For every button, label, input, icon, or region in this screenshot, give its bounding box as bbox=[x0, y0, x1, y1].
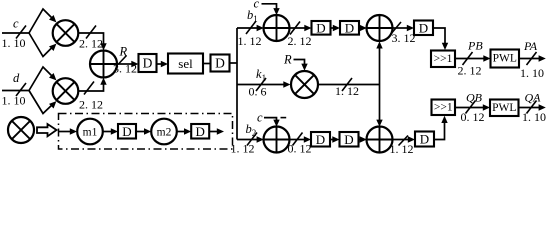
svg-text:d: d bbox=[13, 71, 20, 85]
legend multiplier stage m1 bbox=[77, 119, 103, 145]
register D3 bbox=[312, 20, 331, 35]
svg-text:1. 12: 1. 12 bbox=[335, 84, 359, 98]
adder B2 (sum + k1*R) bbox=[367, 127, 393, 153]
output node PA (format 1.10) bbox=[519, 39, 546, 80]
svg-text:D: D bbox=[345, 20, 354, 35]
svg-text:0. 12: 0. 12 bbox=[461, 110, 485, 124]
node b1: wire bus to adder A1 (format 1.12) bbox=[237, 8, 264, 48]
svg-text:D: D bbox=[316, 20, 325, 35]
wire D8 to shifter bbox=[434, 116, 448, 140]
svg-text:0. 12: 0. 12 bbox=[288, 142, 312, 156]
vertical distribution bus bbox=[236, 28, 238, 140]
wire M1 to adder A0 (format 2.12) bbox=[78, 26, 106, 51]
svg-text:2. 12: 2. 12 bbox=[458, 64, 482, 78]
svg-text:c: c bbox=[257, 111, 263, 125]
shifter >>1 (Q path) bbox=[432, 100, 456, 116]
wire D2 to distribution bus bbox=[230, 62, 238, 64]
register D7 bbox=[340, 132, 359, 147]
svg-text:1. 12: 1. 12 bbox=[390, 142, 414, 156]
svg-text:R: R bbox=[283, 53, 292, 67]
svg-text:m2: m2 bbox=[157, 127, 172, 139]
svg-text:D: D bbox=[420, 132, 429, 147]
legend register D (after m2) bbox=[191, 124, 209, 139]
svg-text:c: c bbox=[13, 17, 19, 31]
node c (negated) into adder B1 bbox=[257, 111, 286, 127]
svg-text:D: D bbox=[316, 132, 325, 147]
svg-text:D: D bbox=[122, 124, 131, 139]
svg-text:m1: m1 bbox=[83, 127, 98, 139]
wire M3 to feedback bus (format 1.12) bbox=[318, 78, 380, 98]
wire sel to D2 bbox=[203, 63, 211, 65]
legend wire D to m2 bbox=[136, 128, 151, 134]
svg-text:1. 12: 1. 12 bbox=[231, 142, 255, 156]
register D2 bbox=[211, 55, 230, 72]
svg-text:1. 10: 1. 10 bbox=[2, 36, 26, 50]
block PWL (Q path) bbox=[490, 100, 519, 117]
legend hollow arrow (implemented-as) bbox=[37, 124, 57, 136]
svg-text:2. 12: 2. 12 bbox=[79, 98, 103, 112]
wire B1 to register (format 0.12) bbox=[288, 133, 312, 156]
svg-text:D: D bbox=[344, 132, 353, 147]
wire D3 to D4 bbox=[331, 25, 341, 31]
svg-text:D: D bbox=[143, 56, 153, 71]
wire A2 to register (format 3.12) bbox=[390, 22, 416, 45]
svg-text:PWL: PWL bbox=[492, 102, 516, 114]
legend wire into m1 bbox=[59, 128, 78, 134]
svg-text:R: R bbox=[119, 45, 128, 59]
wire D1 to sel bbox=[157, 61, 169, 67]
register D4 bbox=[340, 20, 359, 35]
svg-text:3. 12: 3. 12 bbox=[113, 62, 137, 76]
multiplier M1 (c squared) bbox=[53, 20, 79, 46]
register D5 bbox=[414, 20, 433, 35]
node QB: wire shifter to PWL (format 0.12) bbox=[455, 91, 490, 125]
wire B2 to register (format 1.12) bbox=[390, 136, 416, 157]
register D6 bbox=[311, 132, 330, 147]
svg-text:PB: PB bbox=[467, 39, 483, 53]
svg-text:1. 10: 1. 10 bbox=[520, 66, 544, 80]
svg-text:0. 6: 0. 6 bbox=[249, 85, 267, 99]
svg-text:2. 12: 2. 12 bbox=[288, 34, 312, 48]
adder A0 (R = c^2 + d^2) bbox=[90, 51, 117, 78]
svg-text:sel: sel bbox=[178, 56, 193, 71]
svg-text:D: D bbox=[215, 56, 225, 71]
block PWL (P path) bbox=[491, 50, 520, 68]
wire: d fanout diamond into squarer bbox=[29, 67, 56, 114]
svg-text:D: D bbox=[196, 124, 205, 139]
input node d (format 1.10) bbox=[2, 71, 30, 108]
wire M2 to adder A0 (format 2.12) bbox=[78, 78, 106, 112]
svg-text:c: c bbox=[254, 0, 260, 11]
legend multiplier symbol bbox=[8, 117, 34, 143]
multiplier M2 (d squared) bbox=[53, 78, 79, 104]
adder B1 (b2 - c) bbox=[264, 127, 290, 153]
wire A1 to register (format 2.12) bbox=[288, 22, 312, 49]
register D1 bbox=[139, 54, 157, 72]
svg-text:1. 12: 1. 12 bbox=[238, 34, 262, 48]
wire D4 to adder A2 bbox=[359, 25, 367, 31]
node PB: wire shifter to PWL (format 2.12) bbox=[455, 39, 491, 78]
adder A1 (b1 + c) bbox=[264, 15, 290, 41]
svg-text:PA: PA bbox=[523, 39, 538, 53]
feedback bus up into adder A2 bbox=[376, 41, 382, 84]
node R into multiplier M3 bbox=[283, 53, 308, 71]
feedback bus down into adder B2 bbox=[376, 85, 382, 127]
svg-text:2. 12: 2. 12 bbox=[79, 37, 103, 51]
wire D5 to shifter bbox=[433, 28, 448, 50]
svg-text:3. 12: 3. 12 bbox=[392, 31, 416, 45]
svg-text:PWL: PWL bbox=[493, 53, 517, 65]
multiplier M3 (k1 x R) bbox=[291, 71, 318, 98]
shifter >>1 (P path) bbox=[431, 51, 455, 68]
node R: wire A0 to D1 (format 3.12) bbox=[113, 45, 139, 76]
legend multiplier stage m2 bbox=[151, 119, 177, 145]
svg-text:>>1: >>1 bbox=[434, 101, 453, 113]
output node QA (format 1.10) bbox=[519, 91, 547, 125]
svg-text:D: D bbox=[419, 20, 428, 35]
wire: c fanout diamond into squarer bbox=[29, 9, 56, 57]
legend wire m2 to D bbox=[177, 128, 191, 134]
svg-text:1. 10: 1. 10 bbox=[2, 94, 26, 108]
register D8 bbox=[415, 132, 434, 147]
adder A2 (sum + k1*R) bbox=[367, 15, 393, 41]
legend register D (after m1) bbox=[118, 124, 136, 139]
legend output wire bbox=[209, 128, 224, 134]
svg-text:QA: QA bbox=[525, 91, 542, 105]
svg-text:1. 10: 1. 10 bbox=[522, 110, 546, 124]
node k1: wire bus to multiplier M3 (format 0.6) bbox=[237, 67, 291, 99]
wire D7 to adder B2 bbox=[359, 136, 367, 142]
block sel (select) bbox=[168, 54, 203, 74]
svg-text:QB: QB bbox=[466, 91, 483, 105]
legend dash-dot box bbox=[59, 114, 233, 150]
wire D6 to D7 bbox=[330, 136, 340, 142]
svg-text:>>1: >>1 bbox=[434, 53, 453, 65]
legend wire m1 to D bbox=[103, 128, 118, 134]
node c into adder A1 bbox=[254, 0, 280, 15]
input node c (format 1.10) bbox=[2, 17, 30, 51]
node b2: wire bus to adder B1 (format 1.12) bbox=[231, 122, 264, 156]
